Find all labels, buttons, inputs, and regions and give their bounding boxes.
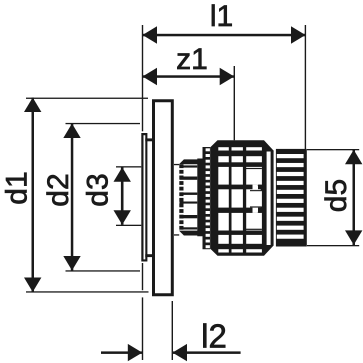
thin outline bottom (plate to threaded section)	[174, 234, 179, 235]
svg-text:l1: l1	[210, 0, 233, 33]
connector bar bottom (between flange and plate)	[145, 254, 152, 257]
dimension d2	[63, 123, 140, 272]
wire: extension line right of l2 (lower)	[172, 301, 173, 360]
wire: extension line left of l2 (lower)	[142, 263, 143, 290]
press body collar ring (slitted)	[197, 147, 210, 249]
dimension l2	[101, 344, 241, 361]
ribbed push-fit end (horizontal ridges)	[276, 149, 307, 247]
dimension z1	[143, 68, 235, 85]
dimension l1	[143, 26, 306, 43]
threaded section top cap (chamfered)	[179, 159, 201, 164]
wire: extension line left (shared by l1,z1)	[142, 25, 143, 131]
press body cage (sleeve with ribs)	[210, 140, 273, 255]
svg-text:z1: z1	[176, 43, 208, 76]
wire: extension line right of l1	[305, 25, 306, 151]
svg-text:d2: d2	[42, 173, 75, 206]
wall plate (tall rectangle, edge view)	[152, 99, 174, 296]
dimension d5	[307, 149, 362, 246]
threaded section groove lines (3 grooves, paired lines)	[180, 165, 198, 229]
thread teeth column	[179, 164, 183, 229]
threaded section bottom cap (chamfered)	[179, 231, 201, 236]
svg-text:d3: d3	[82, 173, 115, 206]
wire: extension line right of z1	[234, 66, 235, 140]
svg-text:d5: d5	[320, 179, 353, 212]
thin outline top (plate to threaded section)	[174, 164, 179, 165]
connector bar top (between flange and plate)	[145, 138, 152, 141]
hoop curvature double lines	[245, 168, 262, 230]
dimension d3	[114, 166, 142, 226]
dimension d1	[24, 98, 149, 293]
hoop arc marks in pocket	[258, 185, 265, 213]
svg-text:l2: l2	[201, 318, 227, 355]
svg-text:d1: d1	[1, 171, 34, 204]
back flange rectangle	[141, 133, 147, 262]
